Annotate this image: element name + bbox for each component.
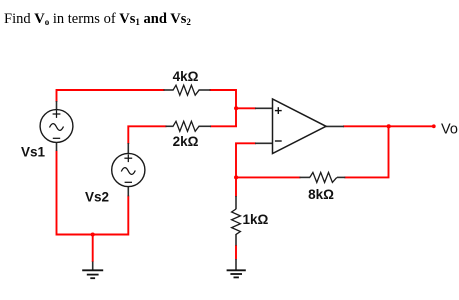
svg-text:1kΩ: 1kΩ — [243, 212, 269, 227]
svg-text:Vo: Vo — [441, 122, 458, 138]
svg-text:Vs2: Vs2 — [85, 189, 109, 204]
svg-text:4kΩ: 4kΩ — [173, 69, 199, 84]
svg-text:Vs1: Vs1 — [21, 144, 46, 159]
svg-text:8kΩ: 8kΩ — [308, 187, 334, 202]
svg-text:2kΩ: 2kΩ — [173, 134, 199, 149]
